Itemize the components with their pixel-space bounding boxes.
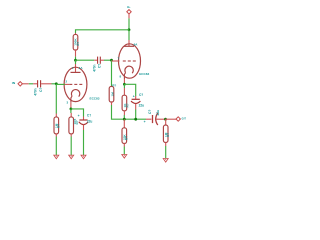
wire K1 to C3 bbox=[71, 109, 84, 117]
capacitor C4 output bbox=[144, 110, 166, 125]
resistor R7 bbox=[163, 119, 170, 146]
tube V2 ECC83 bbox=[112, 42, 150, 79]
resistor R2 bbox=[54, 114, 61, 137]
wire A1 to C2 bbox=[76, 59, 95, 61]
wire cathode V1 bbox=[70, 102, 72, 109]
svg-text:R?: R? bbox=[126, 103, 130, 107]
wire IN to C1 bbox=[29, 83, 33, 85]
wire C5 to rail bbox=[135, 110, 137, 120]
wire C1 to G1 bbox=[52, 83, 57, 85]
wire C3 to ground bbox=[83, 130, 85, 155]
capacitor C2 bbox=[93, 57, 105, 72]
svg-text:+: + bbox=[78, 114, 80, 118]
resistor R5 bbox=[122, 119, 129, 146]
wire R1 to A1 bbox=[75, 57, 77, 61]
node K2 junction bbox=[123, 83, 126, 86]
node junction rail R56 bbox=[123, 118, 126, 121]
wire R4 to rail bbox=[112, 105, 125, 119]
svg-text:470n: 470n bbox=[93, 64, 97, 71]
svg-text:C?: C? bbox=[98, 64, 102, 68]
svg-text:ECC83: ECC83 bbox=[90, 96, 100, 100]
svg-text:470n: 470n bbox=[34, 88, 38, 95]
capacitor C1 bbox=[33, 80, 51, 95]
node junction rail C5 bbox=[134, 118, 137, 121]
wire B+ vertical bbox=[128, 18, 130, 29]
wire OUT to port bbox=[166, 118, 177, 120]
node G1 junction bbox=[55, 82, 58, 85]
ground R5 bbox=[122, 155, 127, 159]
node IN port bbox=[12, 81, 29, 86]
node OUT port bbox=[176, 117, 186, 122]
svg-text:R?: R? bbox=[76, 42, 80, 46]
wire B+ rail horizontal bbox=[76, 30, 130, 33]
node K1 junction bbox=[70, 108, 73, 111]
node junction B+ rail bbox=[128, 28, 131, 31]
svg-text:22u: 22u bbox=[139, 104, 145, 108]
resistor R1 bbox=[73, 33, 80, 57]
wire anode V2 drop bbox=[128, 30, 130, 40]
wire bottom rail bbox=[124, 118, 146, 120]
resistor R6 bbox=[122, 95, 129, 119]
wire K1 to R3 bbox=[70, 109, 72, 113]
wire C2 to G2 bbox=[104, 59, 112, 61]
svg-text:C?: C? bbox=[87, 114, 91, 118]
resistor R3 bbox=[69, 117, 79, 137]
svg-text:R?: R? bbox=[166, 133, 170, 137]
wire G2 drop to R4 bbox=[111, 60, 113, 86]
svg-text:R?: R? bbox=[112, 84, 116, 88]
ground R3 bbox=[69, 155, 74, 159]
wire R2 to ground bbox=[55, 137, 57, 156]
wire K2 to C5 bbox=[124, 84, 135, 96]
svg-text:C?: C? bbox=[148, 110, 152, 114]
wire K2 to R6 bbox=[123, 84, 125, 88]
svg-text:+: + bbox=[133, 95, 135, 99]
svg-text:R?: R? bbox=[125, 136, 129, 140]
capacitor C3 electrolytic bbox=[78, 114, 93, 130]
node B+ port bbox=[127, 5, 131, 19]
ground R2 bbox=[54, 155, 59, 159]
wire A1 anode lead bbox=[75, 60, 77, 64]
svg-text:OUT: OUT bbox=[182, 117, 187, 121]
svg-text:+: + bbox=[144, 120, 146, 124]
svg-text:22u: 22u bbox=[156, 110, 160, 116]
svg-text:1M: 1M bbox=[111, 92, 115, 97]
svg-text:IN: IN bbox=[12, 81, 15, 85]
wire R7 to ground bbox=[165, 146, 167, 158]
svg-text:C?: C? bbox=[139, 93, 143, 97]
wire G1 to R2 bbox=[55, 84, 57, 114]
node A1 junction bbox=[74, 59, 77, 62]
node OUT junction bbox=[164, 118, 167, 121]
wire cathode V2 bbox=[123, 79, 125, 84]
resistor R4 bbox=[109, 84, 116, 105]
node G2 junction bbox=[110, 59, 113, 62]
svg-text:B+: B+ bbox=[127, 5, 130, 9]
svg-text:R?: R? bbox=[57, 124, 61, 128]
ground C3 bbox=[81, 155, 86, 159]
ground R7 bbox=[163, 159, 168, 163]
svg-text:22u: 22u bbox=[87, 119, 93, 123]
wire R3 to ground bbox=[70, 137, 72, 156]
svg-text:C?: C? bbox=[39, 88, 43, 92]
tube V1 ECC83 bbox=[56, 66, 99, 105]
wire R5 to ground bbox=[123, 147, 125, 155]
svg-text:ECC83: ECC83 bbox=[139, 72, 149, 76]
capacitor C5 electrolytic bbox=[131, 93, 144, 110]
